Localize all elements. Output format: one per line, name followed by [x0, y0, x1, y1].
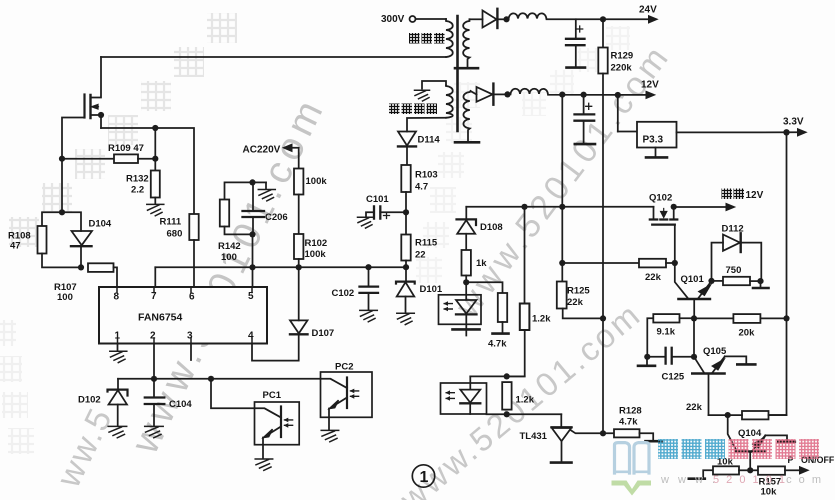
node junction 750/D112 ground — [753, 278, 769, 288]
svg-text:FAN6754: FAN6754 — [138, 312, 183, 324]
optocoupler PC2 (transistor side) — [321, 362, 373, 442]
node 12V output — [641, 80, 659, 100]
resistor R157 10k — [750, 466, 799, 497]
svg-text:22k: 22k — [567, 297, 584, 308]
node junction R132 top — [152, 125, 158, 131]
svg-text:22k: 22k — [645, 272, 662, 283]
svg-text:9.1k: 9.1k — [657, 327, 676, 338]
svg-text:R111: R111 — [160, 217, 182, 228]
node junction 20k/right rail — [783, 315, 789, 321]
svg-text:1.2k: 1.2k — [532, 314, 551, 325]
wire 12V control rail — [466, 206, 653, 208]
resistor 100k (AC sense upper) — [294, 169, 327, 235]
node junction Q105 base — [691, 354, 697, 360]
transformer T1 secondary winding 1 — [455, 19, 478, 68]
node junction 12V/R125 branch — [559, 92, 565, 98]
transformer T1 primary winding (main) — [446, 19, 453, 57]
node controllable 12V output — [674, 189, 764, 212]
svg-text:4.7: 4.7 — [415, 182, 428, 193]
node junction 1k/LED/4.7k — [463, 279, 469, 285]
symbol page number 1 — [412, 465, 434, 487]
svg-text:Q105: Q105 — [703, 346, 727, 357]
capacitor C125 — [647, 348, 694, 383]
node junction Q104 collector — [725, 412, 731, 418]
svg-text:20k: 20k — [739, 328, 756, 339]
svg-text:R129: R129 — [611, 51, 634, 62]
node junction TL431/R128/R129 line — [600, 430, 606, 436]
svg-text:R128: R128 — [619, 406, 642, 417]
transistor Q101 — [675, 263, 712, 319]
diode rectifier 24V — [470, 9, 507, 28]
resistor 4.7k — [466, 282, 508, 349]
svg-text:AC220V: AC220V — [243, 145, 281, 156]
resistor R128 4.7k — [614, 406, 662, 442]
logo watermark site — [612, 439, 824, 496]
resistor R103 4.7 — [401, 165, 437, 235]
capacitor C102 — [332, 267, 379, 322]
svg-text:1k: 1k — [476, 258, 487, 269]
resistor 1.2k (upper) — [507, 207, 552, 377]
resistor R132 2.2 — [126, 128, 160, 204]
svg-text:w w w .: w w w . — [660, 474, 718, 486]
svg-text:2.2: 2.2 — [131, 185, 144, 196]
svg-text:4.7k: 4.7k — [488, 339, 507, 350]
svg-text:220k: 220k — [611, 63, 633, 74]
resistor R115 22 — [401, 235, 438, 268]
svg-text:D104: D104 — [89, 219, 112, 230]
svg-text:C102: C102 — [332, 288, 355, 299]
svg-text:12V: 12V — [641, 80, 659, 91]
inductor L1 — [507, 13, 649, 19]
node junction — [504, 91, 510, 97]
svg-text:300V: 300V — [381, 14, 405, 25]
node junction R142/C206 top — [249, 179, 255, 185]
svg-text:PC2: PC2 — [335, 362, 353, 373]
node junction gate/R109 — [59, 156, 65, 162]
svg-text:P3.3: P3.3 — [643, 135, 664, 146]
svg-text:D107: D107 — [312, 328, 335, 339]
svg-text:1: 1 — [420, 469, 429, 486]
zener D101 — [396, 267, 443, 324]
transistor Q104 — [728, 415, 795, 470]
svg-text:D108: D108 — [480, 222, 503, 233]
resistor 20k — [694, 314, 787, 338]
node AC220V input — [243, 143, 299, 168]
resistor 22k (Q104 collector row) — [686, 402, 787, 419]
svg-text:. c o m: . c o m — [776, 474, 823, 486]
transistor Q102 P-MOSFET — [649, 193, 677, 264]
svg-text:4: 4 — [248, 331, 254, 342]
node junction C101/R103 — [403, 209, 409, 215]
svg-text:6: 6 — [189, 292, 195, 303]
IC TL431 — [520, 414, 615, 462]
resistor R129 220k — [598, 19, 633, 73]
transformer T1 secondary winding 2 — [455, 91, 479, 142]
svg-text:Q102: Q102 — [649, 193, 672, 204]
svg-text:R103: R103 — [415, 170, 438, 181]
svg-text:2: 2 — [150, 331, 156, 342]
svg-text:4.7k: 4.7k — [619, 417, 638, 428]
transistor power MOSFET — [62, 57, 104, 212]
svg-text:C104: C104 — [169, 399, 192, 410]
wire MOSFET source to R132/R111 — [101, 128, 194, 214]
wire Q101 base down — [693, 318, 695, 356]
wire bias rail (pin7 to D101 node) — [155, 266, 406, 268]
transistor Q105 — [692, 346, 755, 415]
node junction 1.2k lower top — [504, 373, 510, 379]
node junction PC1 branch — [208, 376, 214, 382]
node junction Q101 base — [691, 315, 697, 321]
node junction 24V/R129 — [600, 16, 606, 22]
svg-text:C125: C125 — [662, 372, 685, 383]
capacitor C (12V filter) — [575, 92, 596, 145]
svg-text:100: 100 — [57, 292, 73, 303]
node junction 12V/P3.3 branch — [615, 92, 621, 98]
svg-text:100k: 100k — [306, 176, 328, 187]
svg-text:ww.5: ww.5 — [49, 401, 120, 494]
capacitor C (24V filter) — [566, 19, 585, 67]
svg-text:3.3V: 3.3V — [783, 117, 804, 128]
resistor R102 100k — [294, 234, 327, 267]
svg-text:D102: D102 — [78, 395, 101, 406]
svg-text:TL431: TL431 — [520, 431, 548, 442]
resistor 750 — [712, 265, 761, 285]
resistor 22k (Q102 gate) — [562, 259, 675, 283]
node junction Q104 emitter row — [747, 467, 753, 473]
ground aux winding — [415, 90, 430, 101]
node junction C125 left / ground — [638, 354, 655, 366]
svg-text:3: 3 — [187, 331, 193, 342]
wire pin 4 to D107 — [252, 334, 299, 360]
svg-text:D101: D101 — [420, 284, 443, 295]
svg-text:PC1: PC1 — [263, 390, 282, 401]
node junction pin2/C104 — [151, 376, 157, 382]
svg-text:R132: R132 — [126, 174, 149, 185]
resistor R107 100 — [54, 263, 117, 303]
node junction 22k/Q102 gate/Q101 — [672, 260, 678, 266]
node junction C102/rail — [365, 264, 371, 270]
zener D108 — [457, 207, 503, 250]
svg-text:750: 750 — [726, 265, 742, 276]
wire LED2 rail lower — [487, 413, 562, 415]
resistor R125 22k — [557, 282, 603, 319]
wire pin 5 — [252, 267, 254, 287]
capacitor C101 — [358, 194, 407, 228]
node 3.3V output — [783, 117, 808, 137]
svg-text:R109 47: R109 47 — [108, 143, 144, 154]
optocoupler PC2 LED side — [441, 376, 487, 414]
wire aux bottom — [407, 118, 446, 132]
label main winding 主绕组 — [409, 33, 445, 44]
node junction 1.2k lower bottom — [504, 411, 510, 417]
resistor R142 100 — [218, 182, 253, 263]
resistor R108 47 — [8, 212, 81, 267]
wire LED2 rail upper — [470, 375, 524, 377]
node junction 22k row — [559, 260, 565, 266]
transformer core — [456, 16, 459, 131]
svg-text:D114: D114 — [418, 135, 441, 146]
svg-text:24V: 24V — [639, 5, 657, 16]
ground R132 — [147, 204, 164, 215]
svg-text:22k: 22k — [686, 402, 703, 413]
regulator module P3.3 — [618, 95, 677, 157]
wire ground rail (pin2) — [118, 378, 321, 380]
node junction rail/R125 feed — [559, 204, 565, 210]
svg-text:R102: R102 — [305, 238, 328, 249]
resistor 9.1k — [647, 314, 694, 357]
capacitor C104 — [145, 379, 193, 438]
resistor 10k (left) — [689, 457, 750, 479]
svg-text:R115: R115 — [415, 238, 438, 249]
resistor 1.2k (lower) — [502, 382, 535, 410]
wire pin 3 stub — [190, 344, 192, 361]
svg-text:C101: C101 — [366, 194, 389, 205]
node junction gate chain — [59, 209, 65, 215]
resistor R111 680 — [160, 214, 199, 287]
resistor 1k — [462, 250, 488, 282]
svg-text:12V: 12V — [746, 190, 764, 201]
svg-text:22: 22 — [415, 250, 426, 261]
wire R129 long vertical down to R128 node — [602, 74, 604, 434]
wire drain rail to primary — [101, 56, 446, 58]
node junction — [503, 16, 509, 22]
node junction D104/R107 — [78, 264, 84, 270]
resistor R109 47 — [62, 143, 155, 163]
node junction R115/D101/rail — [403, 264, 409, 270]
node ON/OFF output — [788, 455, 835, 475]
ground C206 node — [253, 182, 276, 201]
transformer T1 auxiliary winding — [422, 81, 453, 118]
diode D104 — [62, 212, 112, 267]
inductor L2 — [508, 89, 646, 95]
svg-text:680: 680 — [167, 229, 183, 240]
diode rectifier 12V — [471, 84, 508, 105]
node junction R109/R132 — [152, 156, 158, 162]
IC U1 FAN6754 — [99, 287, 267, 344]
pin 1 ground — [110, 344, 127, 363]
wire pin 7 — [154, 267, 156, 287]
diode D114 — [398, 132, 440, 166]
wire C206 node to pin5 — [252, 234, 254, 267]
svg-text:Q101: Q101 — [681, 274, 705, 285]
zener D107 — [290, 267, 334, 339]
node junction rail/1.2k upper — [521, 204, 527, 210]
node junction rail/pin5 — [249, 264, 255, 270]
svg-text:47: 47 — [10, 241, 21, 252]
svg-text:R142: R142 — [218, 241, 241, 252]
svg-text:1.2k: 1.2k — [516, 395, 535, 406]
svg-text:R125: R125 — [567, 286, 590, 297]
zener D102 — [78, 379, 128, 438]
svg-text:Q104: Q104 — [738, 428, 762, 439]
capacitor C206 — [243, 182, 288, 234]
wire P3.3 output — [677, 131, 798, 133]
node junction Q101 emitter — [708, 278, 714, 284]
node 24V output — [639, 5, 659, 24]
svg-text:C206: C206 — [265, 212, 288, 223]
node junction R125/R129 line — [600, 315, 606, 321]
label aux winding 辅助绕组 — [389, 104, 437, 115]
wire right-side rail — [769, 132, 787, 415]
wire pin 2 — [153, 344, 155, 379]
node junction rail/R102 — [296, 264, 302, 270]
node junction R142/C206 bottom — [249, 231, 255, 237]
optocoupler PC1 LED side — [439, 282, 482, 335]
diode D112 — [712, 224, 762, 282]
svg-text:5: 5 — [248, 291, 254, 302]
svg-text:100k: 100k — [305, 249, 327, 260]
wire 12V down feed — [561, 95, 563, 282]
svg-text:100: 100 — [221, 252, 237, 263]
node 300V input terminal — [381, 14, 446, 25]
optocoupler PC1 (transistor side) — [211, 379, 299, 471]
svg-text:10k: 10k — [761, 487, 778, 498]
